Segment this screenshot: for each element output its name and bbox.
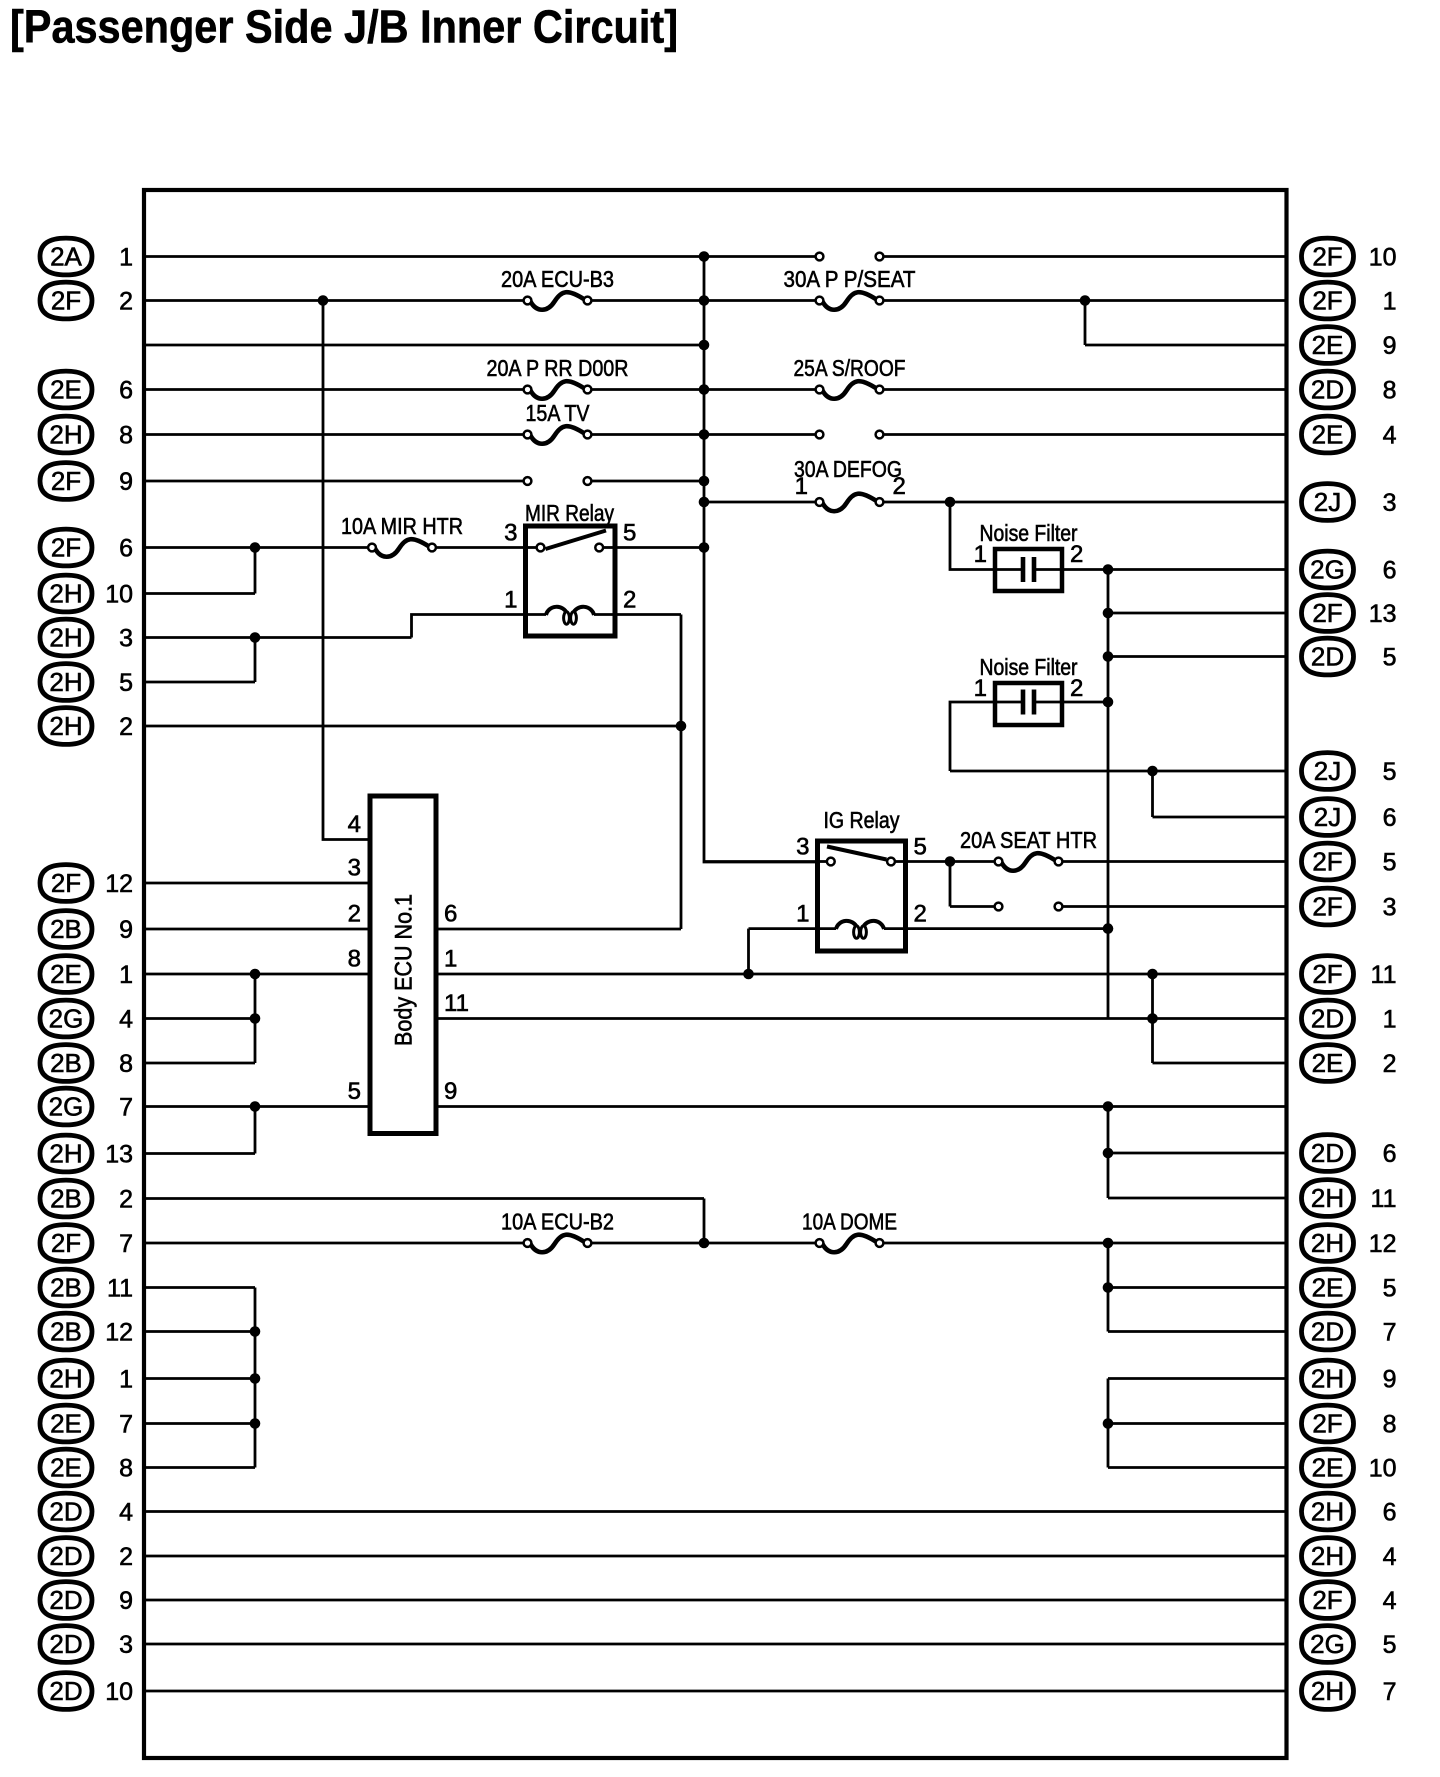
svg-text:2: 2	[623, 587, 636, 614]
svg-text:1: 1	[796, 901, 809, 928]
fuse 30A DEFOG	[794, 456, 906, 511]
svg-text:2D: 2D	[1311, 1004, 1344, 1034]
svg-text:6: 6	[1383, 556, 1397, 584]
wire SEAT HTR branch to 2F-3	[949, 862, 952, 907]
svg-text:MIR Relay: MIR Relay	[525, 500, 614, 526]
svg-text:9: 9	[1383, 1365, 1397, 1393]
wire noise filter 2 input branch	[950, 702, 995, 771]
connector 2F pin 3 (right)	[1302, 888, 1397, 925]
wire 2F-9 to open terminal	[144, 480, 528, 483]
junction at (950,861.5)	[945, 856, 956, 867]
open terminals on 2A-1 row	[816, 253, 884, 261]
connector 2H pin 13 (left)	[40, 1135, 133, 1172]
connector 2D pin 6 (right)	[1302, 1135, 1397, 1172]
junction at (1108,569.5)	[1103, 564, 1114, 575]
fuse 10A MIR HTR	[341, 513, 463, 557]
svg-text:2E: 2E	[50, 1409, 82, 1439]
connector 2D pin 5 (right)	[1302, 638, 1397, 675]
connector 2D pin 8 (right)	[1302, 371, 1397, 408]
wire fuse P/SEAT to 2F-1	[880, 299, 1287, 302]
svg-text:7: 7	[1383, 1318, 1397, 1346]
connector 2A pin 1 (left)	[40, 238, 133, 275]
fuse 20A SEAT HTR	[960, 827, 1097, 871]
svg-text:5: 5	[1383, 758, 1397, 786]
wire bus to IG relay pin 3	[704, 860, 831, 863]
junction at (1108,702)	[1103, 697, 1114, 708]
svg-text:5: 5	[119, 669, 133, 697]
svg-text:2H: 2H	[49, 711, 82, 741]
svg-text:7: 7	[119, 1230, 133, 1258]
connector 2E pin 2 (right)	[1302, 1045, 1397, 1082]
connector 2B pin 8 (left)	[40, 1045, 133, 1082]
svg-text:2B: 2B	[50, 1273, 82, 1303]
wire open terminal to bus	[588, 480, 705, 483]
svg-text:2E: 2E	[1312, 1273, 1344, 1303]
wire 2B-12 stub	[144, 1330, 255, 1333]
svg-text:2: 2	[1070, 541, 1083, 568]
wire branch 2F-11/2D-1/2E-2	[1151, 974, 1154, 1063]
connector 2H pin 1 (left)	[40, 1360, 133, 1397]
connector 2G pin 4 (left)	[40, 1000, 133, 1037]
svg-text:2H: 2H	[1311, 1228, 1344, 1258]
svg-text:2H: 2H	[1311, 1676, 1344, 1706]
connector 2D pin 4 (left)	[40, 1493, 133, 1530]
svg-text:1: 1	[1383, 287, 1397, 315]
svg-text:8: 8	[119, 1050, 133, 1078]
connector 2H pin 2 (left)	[40, 708, 133, 745]
svg-text:2E: 2E	[50, 375, 82, 405]
connector 2B pin 11 (left)	[40, 1269, 133, 1306]
wire MIR coil branch down to ECU pin 6	[680, 615, 683, 930]
connector 2H pin 3 (left)	[40, 619, 133, 656]
junction at (1108,656.5)	[1103, 651, 1114, 662]
connector 2F pin 7 (left)	[40, 1225, 133, 1262]
connector 2F pin 1 (right)	[1302, 282, 1397, 319]
svg-text:6: 6	[1383, 1498, 1397, 1526]
connector 2D pin 2 (left)	[40, 1538, 133, 1575]
junction at (255,974)	[250, 969, 261, 980]
wire ECU pin 9 out	[436, 1105, 1287, 1108]
wire to 2E-5	[1108, 1286, 1287, 1289]
connector 2D pin 9 (left)	[40, 1582, 133, 1619]
svg-text:5: 5	[348, 1078, 361, 1105]
svg-text:9: 9	[119, 1587, 133, 1615]
wire MIR relay pin 5 to bus	[599, 546, 704, 549]
svg-text:1: 1	[119, 243, 133, 271]
capacitor noise filter 1	[974, 520, 1084, 591]
svg-text:2H: 2H	[1311, 1497, 1344, 1527]
connector 2J pin 6 (right)	[1302, 799, 1397, 836]
connector 2J pin 5 (right)	[1302, 753, 1397, 790]
wire branch 2B-11/2B-12/2H-1/2E-7/2E-8	[254, 1288, 257, 1468]
wire bus to fuse DEFOG	[704, 501, 820, 504]
fuse 30A P P/SEAT	[784, 266, 916, 310]
svg-text:8: 8	[119, 421, 133, 449]
wire to 2E-9	[1085, 344, 1287, 347]
wire 2G-7 to ECU pin 5	[144, 1105, 370, 1108]
svg-text:12: 12	[105, 1318, 133, 1346]
connector 2E pin 5 (right)	[1302, 1269, 1397, 1306]
wire 2G-4 stub	[144, 1017, 255, 1020]
svg-text:8: 8	[348, 946, 361, 973]
svg-text:Body ECU No.1: Body ECU No.1	[391, 894, 418, 1046]
relay IG Relay U2	[796, 807, 927, 951]
svg-text:2: 2	[348, 901, 361, 928]
svg-text:5: 5	[1383, 848, 1397, 876]
junction at (323,300.5)	[318, 295, 329, 306]
svg-text:2H: 2H	[49, 667, 82, 697]
wire 2D-9 to 2F-4	[144, 1599, 1287, 1602]
connector 2E pin 8 (left)	[40, 1449, 133, 1486]
wire 2H-8 to fuse TV	[144, 433, 528, 436]
wire branch 2G-7 to 2H-13	[254, 1107, 257, 1154]
svg-text:12: 12	[105, 870, 133, 898]
wire branch 2E-1/2G-4/2B-8	[254, 974, 257, 1063]
wire 2E-6 to fuse P RR DOOR	[144, 388, 528, 391]
svg-text:2B: 2B	[50, 1048, 82, 1078]
wire fuse TV to empty slot	[588, 433, 820, 436]
junction at (704,481)	[699, 476, 710, 487]
junction at (1108,1153)	[1103, 1148, 1114, 1159]
connector 2H pin 4 (right)	[1302, 1538, 1397, 1575]
wire 2H-5 stub	[144, 681, 255, 684]
wire to 2F-3 open slot	[950, 905, 999, 908]
svg-text:10A MIR HTR: 10A MIR HTR	[341, 513, 463, 539]
svg-text:2: 2	[893, 473, 906, 500]
fuse 10A DOME	[802, 1209, 897, 1253]
svg-text:2: 2	[119, 1543, 133, 1571]
relay MIR Relay U1	[504, 500, 636, 636]
connector 2F pin 4 (right)	[1302, 1582, 1397, 1619]
fuse 20A ECU-B3	[501, 266, 614, 310]
title	[10, 1, 678, 53]
wire 2D-3 to 2G-5	[144, 1643, 1287, 1646]
fuse 25A S/ROOF	[794, 355, 906, 399]
connector 2H pin 9 (right)	[1302, 1360, 1397, 1397]
junction at (255,1331.5)	[250, 1326, 261, 1337]
svg-text:30A P P/SEAT: 30A P P/SEAT	[784, 266, 916, 292]
connector 2F pin 13 (right)	[1302, 595, 1397, 632]
wire 2E-7 stub	[144, 1422, 255, 1425]
wire node row to bus	[144, 344, 704, 347]
wire to 2J-5	[950, 770, 1287, 773]
wire fuse ECU-B3 to fuse P/SEAT	[588, 299, 820, 302]
junction at (704,300.5)	[699, 295, 710, 306]
junction at (1152.5,1018.5)	[1147, 1013, 1158, 1024]
svg-text:2F: 2F	[1312, 892, 1342, 922]
svg-text:2F: 2F	[1312, 1585, 1342, 1615]
svg-text:4: 4	[119, 1498, 133, 1526]
svg-text:1: 1	[119, 1365, 133, 1393]
svg-text:3: 3	[1383, 489, 1397, 517]
svg-text:8: 8	[1383, 376, 1397, 404]
svg-text:9: 9	[1383, 332, 1397, 360]
svg-text:2: 2	[1070, 675, 1083, 702]
svg-text:2F: 2F	[51, 466, 81, 496]
svg-text:2H: 2H	[49, 1139, 82, 1169]
svg-text:13: 13	[105, 1140, 133, 1168]
wire 2F-12 to ECU pin 3	[144, 882, 370, 885]
wire branch 2F-6 to 2H-10	[254, 548, 257, 594]
svg-text:2G: 2G	[1310, 555, 1345, 585]
svg-text:2F: 2F	[1312, 286, 1342, 316]
svg-text:30A DEFOG: 30A DEFOG	[794, 456, 902, 482]
connector 2F pin 6 (left)	[40, 529, 133, 566]
connector 2E pin 4 (right)	[1302, 416, 1397, 453]
wire 2A-1 row left of empty fuse slot	[144, 255, 820, 258]
wire 2B-2 branch down to fuse row	[703, 1199, 706, 1244]
junction at (255,1423.5)	[250, 1418, 261, 1429]
wire 2H-1 stub	[144, 1377, 255, 1380]
svg-text:1: 1	[795, 473, 808, 500]
junction at (704,502)	[699, 497, 710, 508]
wire 2H-13 stub	[144, 1152, 255, 1155]
junction block boundary box	[144, 190, 1287, 1758]
wire noise filter 1 output to 2G-6	[1062, 568, 1287, 571]
svg-text:11: 11	[444, 990, 469, 1017]
fuse 20A P RR D00R	[487, 355, 629, 399]
svg-text:2A: 2A	[50, 242, 82, 272]
svg-text:2G: 2G	[1310, 1629, 1345, 1659]
svg-text:2D: 2D	[49, 1497, 82, 1527]
svg-text:2D: 2D	[49, 1629, 82, 1659]
svg-text:2H: 2H	[49, 579, 82, 609]
junction at (1085,300.5)	[1080, 295, 1091, 306]
svg-text:4: 4	[119, 1005, 133, 1033]
svg-text:2F: 2F	[1312, 959, 1342, 989]
wire branch 2J-5 to 2J-6	[1151, 771, 1154, 817]
svg-text:10: 10	[105, 1678, 133, 1706]
svg-text:2: 2	[1383, 1050, 1397, 1078]
connector 2H pin 8 (left)	[40, 416, 133, 453]
junction at (704,547.5)	[699, 542, 710, 553]
svg-text:2D: 2D	[49, 1585, 82, 1615]
svg-text:[Passenger Side J/B Inner Circ: [Passenger Side J/B Inner Circuit]	[10, 1, 678, 53]
open terminals on 2F-9 row	[524, 477, 592, 485]
svg-text:2E: 2E	[1312, 1453, 1344, 1483]
wire branch 2H-9/2F-8/2E-10	[1107, 1379, 1110, 1468]
connector 2D pin 10 (left)	[40, 1673, 133, 1710]
wire main power bus down to IG relay	[704, 257, 818, 863]
svg-text:2F: 2F	[1312, 242, 1342, 272]
wire to 2J-6	[1153, 816, 1287, 819]
wire branch 2F-1 to 2E-9	[1084, 301, 1087, 346]
junction at (255,1106.5)	[250, 1101, 261, 1112]
wire fuse DEFOG to 2J-3	[880, 501, 1287, 504]
svg-text:11: 11	[1371, 1185, 1397, 1213]
svg-text:4: 4	[1383, 1543, 1397, 1571]
wire to 2D-7	[1108, 1330, 1287, 1333]
svg-text:5: 5	[623, 520, 636, 547]
junction at (704,256.5)	[699, 251, 710, 262]
wire ECU pin 11 to 2D-1	[436, 1017, 1287, 1020]
junction at (1108,1243)	[1103, 1238, 1114, 1249]
svg-text:7: 7	[119, 1410, 133, 1438]
svg-text:5: 5	[914, 834, 927, 861]
connector 2B pin 12 (left)	[40, 1313, 133, 1350]
svg-text:IG Relay: IG Relay	[824, 807, 900, 833]
fuse 10A ECU-B2	[501, 1209, 614, 1253]
connector 2E pin 10 (right)	[1302, 1449, 1397, 1486]
connector 2F pin 8 (right)	[1302, 1405, 1397, 1442]
connector 2H pin 7 (right)	[1302, 1673, 1397, 1710]
svg-text:2D: 2D	[1311, 642, 1344, 672]
svg-text:1: 1	[974, 541, 987, 568]
svg-text:2H: 2H	[1311, 1364, 1344, 1394]
svg-text:6: 6	[444, 901, 457, 928]
wire 2B-9 to ECU pin 2	[144, 928, 370, 931]
svg-text:15A TV: 15A TV	[526, 400, 591, 426]
svg-text:2D: 2D	[49, 1541, 82, 1571]
connector 2H pin 12 (right)	[1302, 1225, 1397, 1262]
svg-text:2F: 2F	[1312, 598, 1342, 628]
connector 2H pin 6 (right)	[1302, 1493, 1397, 1530]
svg-text:20A SEAT HTR: 20A SEAT HTR	[960, 827, 1097, 853]
svg-text:9: 9	[119, 468, 133, 496]
junction at (255,1378.5)	[250, 1373, 261, 1384]
svg-text:2D: 2D	[1311, 375, 1344, 405]
svg-text:13: 13	[1369, 600, 1397, 628]
svg-text:2J: 2J	[1314, 487, 1341, 517]
svg-text:1: 1	[119, 961, 133, 989]
svg-text:10: 10	[1369, 243, 1397, 271]
svg-text:2: 2	[119, 1185, 133, 1213]
connector 2D pin 3 (left)	[40, 1626, 133, 1663]
svg-text:6: 6	[1383, 1140, 1397, 1168]
svg-text:2H: 2H	[49, 1364, 82, 1394]
wire 2B-2 row	[144, 1197, 704, 1200]
connector 2G pin 7 (left)	[40, 1088, 133, 1125]
wire 2D-10 to 2H-7	[144, 1690, 1287, 1693]
wire 2D-2 to 2H-4	[144, 1555, 1287, 1558]
wire 2H-2 row	[144, 725, 681, 728]
svg-text:11: 11	[1371, 961, 1397, 989]
svg-text:2B: 2B	[50, 914, 82, 944]
wire DEFOG branch down to noise filter 1	[950, 502, 995, 570]
svg-text:1: 1	[504, 587, 517, 614]
wire DOME branch to 2E-5/2D-7	[1107, 1243, 1110, 1332]
wire ECU pin9 branch to 2D-6/2H-11	[1107, 1107, 1110, 1199]
wire 2F-7 to fuse ECU-B2	[144, 1242, 528, 1245]
svg-text:9: 9	[119, 916, 133, 944]
svg-text:2F: 2F	[51, 533, 81, 563]
svg-text:11: 11	[107, 1274, 133, 1302]
svg-text:3: 3	[119, 624, 133, 652]
connector 2F pin 10 (right)	[1302, 238, 1397, 275]
wire open slot to 2F-3	[1059, 905, 1287, 908]
wire to 2D-5	[1108, 655, 1287, 658]
svg-text:3: 3	[348, 855, 361, 882]
svg-text:2: 2	[119, 287, 133, 315]
svg-text:2G: 2G	[49, 1092, 84, 1122]
connector 2G pin 6 (right)	[1302, 551, 1397, 588]
svg-text:2H: 2H	[1311, 1541, 1344, 1571]
connector 2G pin 5 (right)	[1302, 1626, 1397, 1663]
wire to 2D-6	[1108, 1152, 1287, 1155]
wire 2A-1 row to 2F-10	[880, 255, 1287, 258]
connector 2H pin 5 (left)	[40, 664, 133, 701]
junction at (1108,928.6)	[1103, 923, 1114, 934]
connector 2E pin 1 (left)	[40, 956, 133, 993]
wire to 2H-11	[1108, 1197, 1287, 1200]
svg-text:2D: 2D	[1311, 1138, 1344, 1168]
wire 2H-10 stub	[144, 592, 255, 595]
svg-text:2H: 2H	[1311, 1183, 1344, 1213]
svg-text:20A ECU-B3: 20A ECU-B3	[501, 266, 614, 292]
svg-text:2: 2	[119, 713, 133, 741]
wire fuse DOME to 2H-12	[880, 1242, 1287, 1245]
svg-text:2E: 2E	[50, 959, 82, 989]
capacitor noise filter 2	[974, 654, 1084, 725]
wire fuse ECU-B2 to fuse DOME	[588, 1242, 820, 1245]
IC Body ECU No.1	[348, 796, 469, 1134]
wire fuse MIR HTR to MIR relay pin 3	[433, 546, 541, 549]
connector 2J pin 3 (right)	[1302, 484, 1397, 521]
open terminals on 2H-8 row	[816, 431, 884, 439]
svg-text:3: 3	[504, 520, 517, 547]
junction at (255,637.5)	[250, 632, 261, 643]
svg-text:4: 4	[348, 811, 361, 838]
svg-text:10A ECU-B2: 10A ECU-B2	[501, 1209, 614, 1235]
wire fuse P RR DOOR to fuse S/ROOF	[588, 388, 820, 391]
wire fuse SEAT HTR to 2F-5	[1059, 860, 1287, 863]
svg-text:7: 7	[1383, 1678, 1397, 1706]
svg-text:4: 4	[1383, 421, 1397, 449]
svg-text:6: 6	[119, 376, 133, 404]
connector 2E pin 7 (left)	[40, 1405, 133, 1442]
connector 2D pin 1 (right)	[1302, 1000, 1397, 1037]
svg-text:2B: 2B	[50, 1317, 82, 1347]
svg-text:5: 5	[1383, 1274, 1397, 1302]
svg-text:1: 1	[444, 946, 457, 973]
svg-text:20A P RR D00R: 20A P RR D00R	[487, 355, 629, 381]
svg-text:9: 9	[444, 1078, 457, 1105]
connector 2H pin 10 (left)	[40, 575, 133, 612]
wire to 2E-10	[1108, 1466, 1287, 1469]
svg-text:2G: 2G	[49, 1004, 84, 1034]
wire to 2F-8	[1108, 1422, 1287, 1425]
svg-text:1: 1	[1383, 1005, 1397, 1033]
svg-text:10: 10	[105, 580, 133, 608]
wire to 2F-13	[1108, 612, 1287, 615]
svg-text:2E: 2E	[1312, 1048, 1344, 1078]
connector 2F pin 5 (right)	[1302, 843, 1397, 880]
wire 2F-2 to fuse ECU-B3	[144, 299, 528, 302]
junction at (1152.5,974)	[1147, 969, 1158, 980]
junction at (704,389.5)	[699, 384, 710, 395]
wire 2H-3 stub	[144, 636, 412, 639]
svg-text:3: 3	[796, 834, 809, 861]
connector 2B pin 2 (left)	[40, 1180, 133, 1217]
connector 2F pin 2 (left)	[40, 282, 133, 319]
wire IG relay coil out	[906, 927, 1109, 930]
wire IG coil branch to ECU pin1 row	[747, 929, 750, 974]
fuse 15A TV	[524, 400, 592, 444]
wire branch 2H-3 to 2H-5	[254, 638, 257, 683]
wire 2E-1 to ECU pin 8	[144, 973, 370, 976]
wire IG relay coil feed	[749, 927, 818, 930]
svg-text:2: 2	[914, 901, 927, 928]
svg-text:2F: 2F	[1312, 847, 1342, 877]
connector 2H pin 11 (right)	[1302, 1180, 1397, 1217]
wire 2H-3 step up to MIR coil	[412, 615, 526, 638]
svg-text:2F: 2F	[1312, 1409, 1342, 1439]
junction at (748.5,974)	[743, 969, 754, 980]
svg-text:10: 10	[1369, 1454, 1397, 1482]
svg-text:2D: 2D	[1311, 1317, 1344, 1347]
svg-text:2F: 2F	[51, 1228, 81, 1258]
junction at (255,1018.5)	[250, 1013, 261, 1024]
